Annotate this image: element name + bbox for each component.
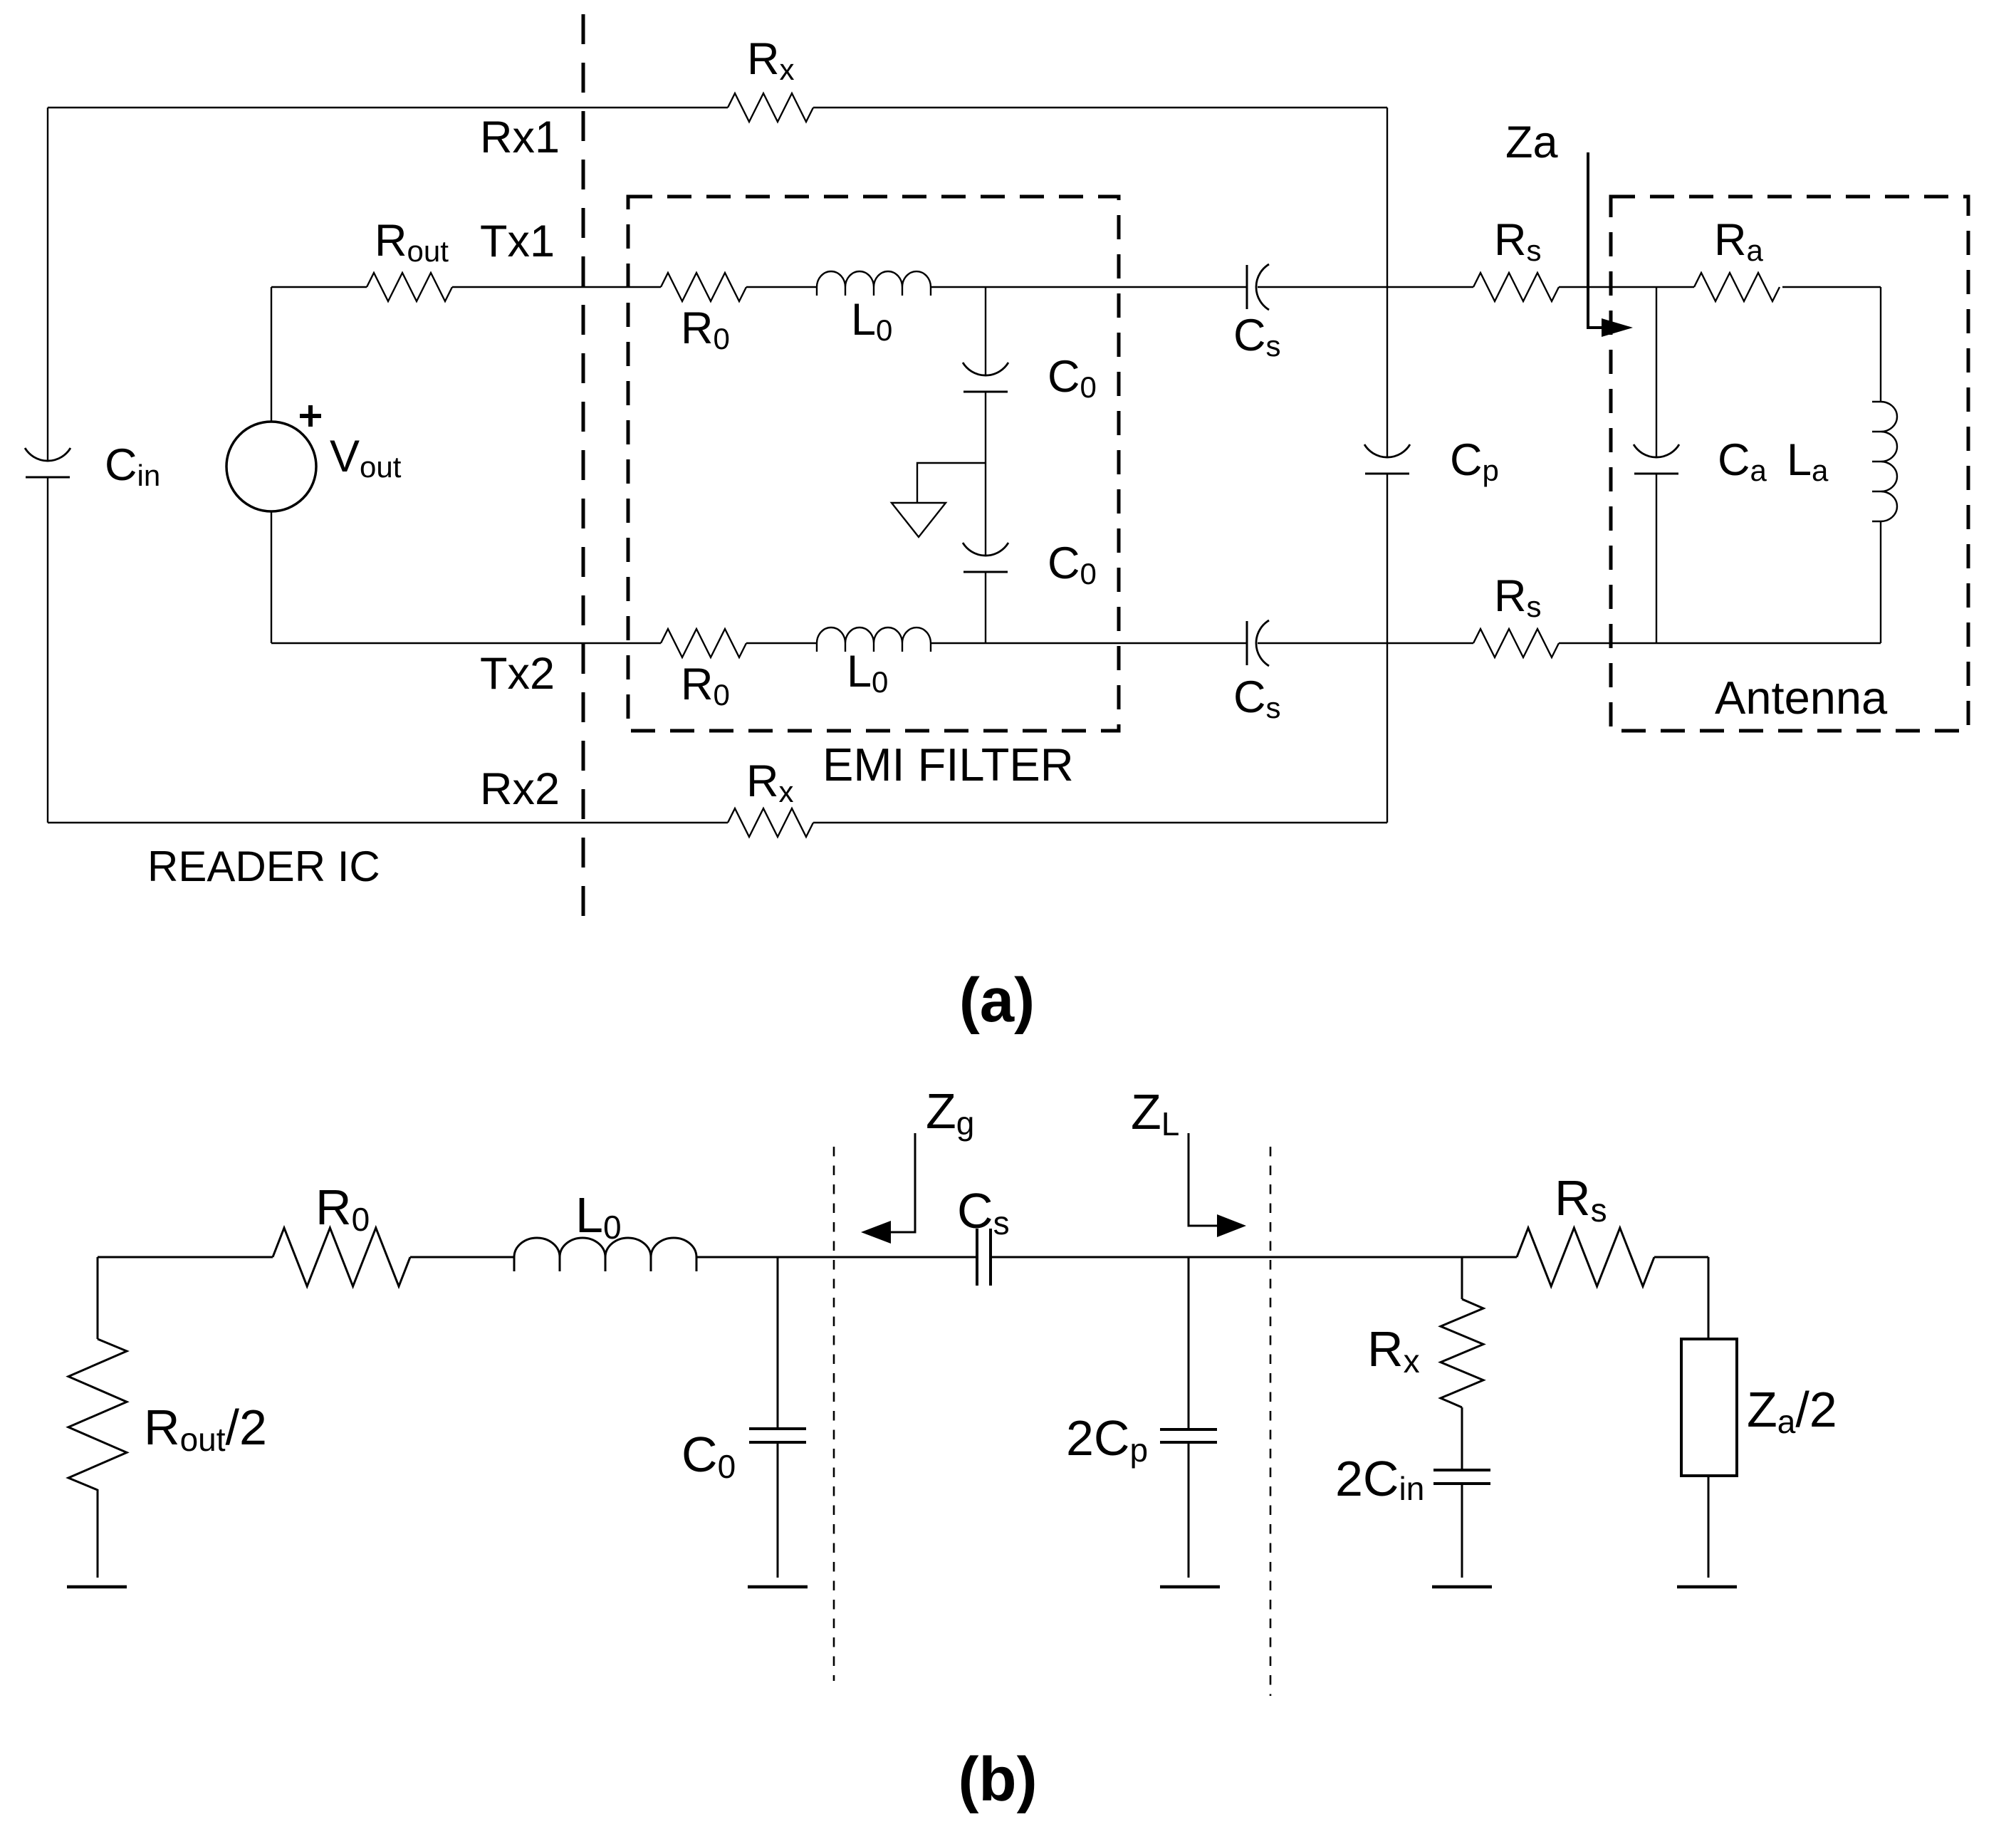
wire Rout/2 branch top: [97, 1257, 99, 1339]
terminal bar Rout/2: [67, 1585, 127, 1589]
capacitor 2Cin: [1433, 1470, 1490, 1484]
arrow ZL: [1189, 1133, 1246, 1237]
inductor La: [1872, 402, 1897, 521]
wire 2Cp branch (b): [1188, 1257, 1190, 1429]
ground tap wire: [917, 463, 986, 503]
svg-text:(b): (b): [958, 1745, 1037, 1814]
svg-text:Tx2: Tx2: [480, 649, 555, 699]
label L0 (Tx1): [851, 295, 892, 347]
wire R0 to L0 (Tx2): [746, 642, 817, 644]
wire Vout top lead: [271, 287, 367, 422]
label La: [1787, 435, 1829, 487]
label Antenna: [1715, 672, 1888, 724]
wire L0 to Cs (b): [696, 1256, 977, 1259]
capacitor C0 (upper): [963, 363, 1008, 392]
resistor R0 (Tx1): [661, 273, 746, 301]
wire right vertical below Cp: [1386, 474, 1388, 823]
wire Rx to 2Cin (b): [1461, 1407, 1463, 1470]
wire Rs to antenna (Tx1): [1559, 286, 1656, 288]
wire Ca junction to Ra: [1656, 286, 1694, 288]
terminal bar 2Cin: [1432, 1585, 1492, 1589]
capacitor C0 (b): [749, 1429, 806, 1442]
terminal bar 2Cp: [1160, 1585, 1220, 1589]
impedance box Za/2: [1681, 1339, 1737, 1476]
wire Rx2 right segment: [813, 822, 1387, 823]
inductor L0 (b): [514, 1238, 696, 1271]
resistor R0 (b): [273, 1228, 410, 1286]
wire left vertical (Rx1 to Rx2): [47, 108, 48, 461]
capacitor Cp: [1364, 444, 1410, 474]
resistor Ra: [1694, 273, 1780, 301]
label C0 (lower): [1048, 538, 1097, 590]
svg-text:Za: Za: [1505, 118, 1558, 167]
svg-text:(a): (a): [959, 966, 1035, 1035]
label L0 (Tx2): [847, 647, 888, 699]
wire Tx1 to EMI filter: [452, 286, 661, 288]
label Rout/2: [144, 1400, 267, 1458]
label Cs (Tx2): [1233, 672, 1281, 724]
label C0 (upper): [1048, 352, 1097, 404]
capacitor Cs (b): [977, 1229, 991, 1286]
label Za: [1505, 118, 1558, 167]
boundary dashed line READER IC: [582, 14, 585, 921]
svg-text:Rx2: Rx2: [480, 764, 560, 814]
label Rx (bottom resistor): [746, 756, 794, 808]
label Rs (b): [1555, 1170, 1607, 1229]
label Cp: [1450, 435, 1499, 487]
wire 2Cp to Rx junction (b): [1189, 1256, 1462, 1259]
label Rx (top resistor): [747, 34, 795, 86]
wire left vertical below Cin: [47, 477, 48, 823]
capacitor Cs (Tx2): [1247, 620, 1269, 666]
wire 2Cp to bar: [1188, 1442, 1190, 1578]
wire 2Cin to bar: [1461, 1484, 1463, 1578]
wire C0 to bar (b): [777, 1442, 779, 1578]
ground: [892, 503, 946, 537]
label Za/2: [1747, 1382, 1837, 1440]
label Vout: [330, 432, 402, 484]
wire Rout/2 to ground bar: [97, 1489, 99, 1578]
node Tx1: [480, 217, 555, 266]
label 2Cin: [1335, 1451, 1424, 1507]
wire Rx1 top-right segment: [813, 107, 1387, 108]
label Rout: [375, 216, 449, 268]
resistor Rx (top, Rx1 line): [728, 93, 813, 122]
capacitor Cin: [25, 448, 70, 477]
wire Za/2 to bar: [1708, 1476, 1710, 1578]
label + polarity: [300, 405, 321, 427]
node Rx1: [480, 113, 560, 162]
label 2Cp: [1066, 1410, 1148, 1469]
label EMI FILTER: [822, 739, 1074, 791]
node Tx2: [480, 649, 555, 699]
resistor Rx (bottom, Rx2 line): [728, 808, 813, 837]
label R0 (Tx2): [681, 660, 730, 712]
label Cs (Tx1): [1233, 311, 1281, 363]
svg-text:Tx1: Tx1: [480, 217, 555, 266]
wire Rx junction to Rs (b): [1462, 1256, 1517, 1259]
label ZL: [1131, 1084, 1179, 1142]
wire C0 midsection: [985, 392, 986, 556]
inductor L0 (Tx1): [817, 271, 931, 296]
wire Ca branch top: [1656, 287, 1657, 457]
label Zg: [926, 1083, 974, 1142]
inductor L0 (Tx2): [817, 627, 931, 652]
wire Cs to Rs (Tx1): [1258, 286, 1473, 288]
wire C0 branch upper: [985, 287, 986, 375]
resistor Rout: [367, 273, 452, 301]
label (a): [959, 966, 1035, 1035]
capacitor Ca: [1634, 444, 1679, 474]
resistor Rs (b): [1517, 1228, 1654, 1286]
wire Tx2 Cs to Rs: [1258, 642, 1473, 644]
wire Ra to La corner: [1782, 287, 1881, 402]
label R0 (Tx1): [681, 303, 730, 355]
boundary dashed line Zg: [833, 1147, 835, 1681]
resistor Rs (Tx1): [1473, 273, 1559, 301]
label R0 (b): [315, 1179, 370, 1238]
wire C0 branch lower: [985, 572, 986, 643]
capacitor 2Cp: [1160, 1429, 1217, 1442]
terminal bar C0 (b): [748, 1585, 808, 1589]
wire Cs to 2Cp (b): [991, 1256, 1189, 1259]
voltage source Vout: [226, 422, 316, 511]
wire C0 branch (b): [777, 1257, 779, 1429]
label Rx (b): [1367, 1321, 1420, 1380]
arrow Zg: [861, 1133, 915, 1244]
svg-text:Rx1: Rx1: [480, 113, 560, 162]
wire Vout bottom lead: [271, 511, 661, 643]
label Ra: [1714, 215, 1764, 267]
wire Rs to Za/2 corner (b): [1654, 1257, 1708, 1339]
label Rs (Tx1): [1494, 215, 1542, 267]
wire R0 to L0 (b): [410, 1256, 514, 1259]
label Cin: [105, 440, 160, 492]
resistor Rx (b): [1441, 1299, 1483, 1407]
label Ca: [1718, 435, 1767, 487]
resistor Rout/2: [68, 1339, 127, 1490]
capacitor C0 (lower): [963, 543, 1008, 572]
svg-text:EMI FILTER: EMI FILTER: [822, 739, 1074, 791]
boundary dashed line ZL: [1270, 1147, 1272, 1696]
wire R0 to L0 (Tx1): [746, 286, 817, 288]
arrow Za: [1588, 152, 1633, 337]
node Rx2: [480, 764, 560, 814]
label READER IC: [147, 843, 380, 890]
label Cs (b): [957, 1183, 1010, 1241]
svg-text:READER IC: READER IC: [147, 843, 380, 890]
terminal bar Za/2: [1677, 1585, 1737, 1589]
label L0 (b): [575, 1187, 622, 1246]
box EMI FILTER: [628, 197, 1119, 731]
wire Rs to antenna (Tx2): [1559, 642, 1656, 644]
svg-text:Antenna: Antenna: [1715, 672, 1888, 724]
wire main (b) left segment: [98, 1256, 273, 1259]
wire Rx1 top-left segment: [48, 107, 728, 108]
wire Rx branch top (b): [1461, 1257, 1463, 1299]
wire L0 to Cs (Tx2): [931, 642, 1247, 644]
wire right vertical (Rx1-Cp-Rx2): [1386, 108, 1388, 457]
label (b): [958, 1745, 1037, 1814]
wire Ca branch bottom: [1656, 474, 1657, 643]
wire Rx2 left segment: [48, 822, 728, 823]
capacitor Cs (Tx1): [1247, 264, 1269, 310]
box Antenna: [1611, 197, 1968, 731]
label Rs (Tx2): [1494, 571, 1542, 623]
label C0 (b): [681, 1427, 736, 1485]
resistor R0 (Tx2): [661, 629, 746, 657]
wire La bottom lead: [1656, 521, 1881, 643]
resistor Rs (Tx2): [1473, 629, 1559, 657]
wire L0 to Cs (Tx1): [931, 286, 1247, 288]
